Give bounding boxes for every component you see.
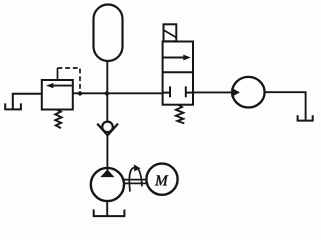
- tank (pump suction): [94, 210, 125, 217]
- electric motor M: [146, 164, 177, 195]
- shaft rotation arrow: [129, 164, 142, 191]
- solenoid actuator: [164, 24, 177, 41]
- hydraulic motor: [232, 77, 264, 108]
- directional valve blocked ports (lower position): [163, 86, 193, 97]
- directional valve return spring: [176, 105, 184, 124]
- relief valve spring: [55, 110, 61, 129]
- drive shaft: [124, 180, 147, 184]
- motor label M: [155, 175, 169, 185]
- wire: main pressure line (relief valve to directional valve): [73, 92, 163, 94]
- wire: check valve to pump: [106, 135, 108, 170]
- junction: pilot line tap: [78, 91, 82, 95]
- wire: accumulator to main line: [106, 61, 108, 93]
- directional valve position divider: [163, 71, 193, 73]
- directional valve flow arrow (upper position): [164, 55, 191, 61]
- accumulator: [94, 5, 123, 62]
- tank (relief valve drain): [5, 103, 21, 109]
- wire: directional valve to hydraulic motor: [193, 91, 233, 93]
- junction: accumulator / check valve node: [105, 91, 109, 95]
- flow direction arrowhead: [231, 88, 240, 97]
- pump flow triangle: [100, 169, 114, 177]
- directional valve body: [163, 42, 193, 105]
- check valve ball: [102, 122, 113, 133]
- pump: [91, 168, 124, 201]
- relief valve flow arrow: [46, 83, 72, 88]
- wire: pump suction to tank: [106, 201, 108, 216]
- tank (hydraulic motor return): [298, 115, 313, 120]
- wire: hydraulic motor outlet to tank: [265, 92, 306, 120]
- pilot line (dashed): [58, 68, 81, 92]
- check valve seat: [97, 124, 118, 136]
- wire: relief valve drain to tank: [13, 94, 42, 109]
- wire: node to check valve: [106, 93, 108, 121]
- relief valve body: [42, 80, 73, 110]
